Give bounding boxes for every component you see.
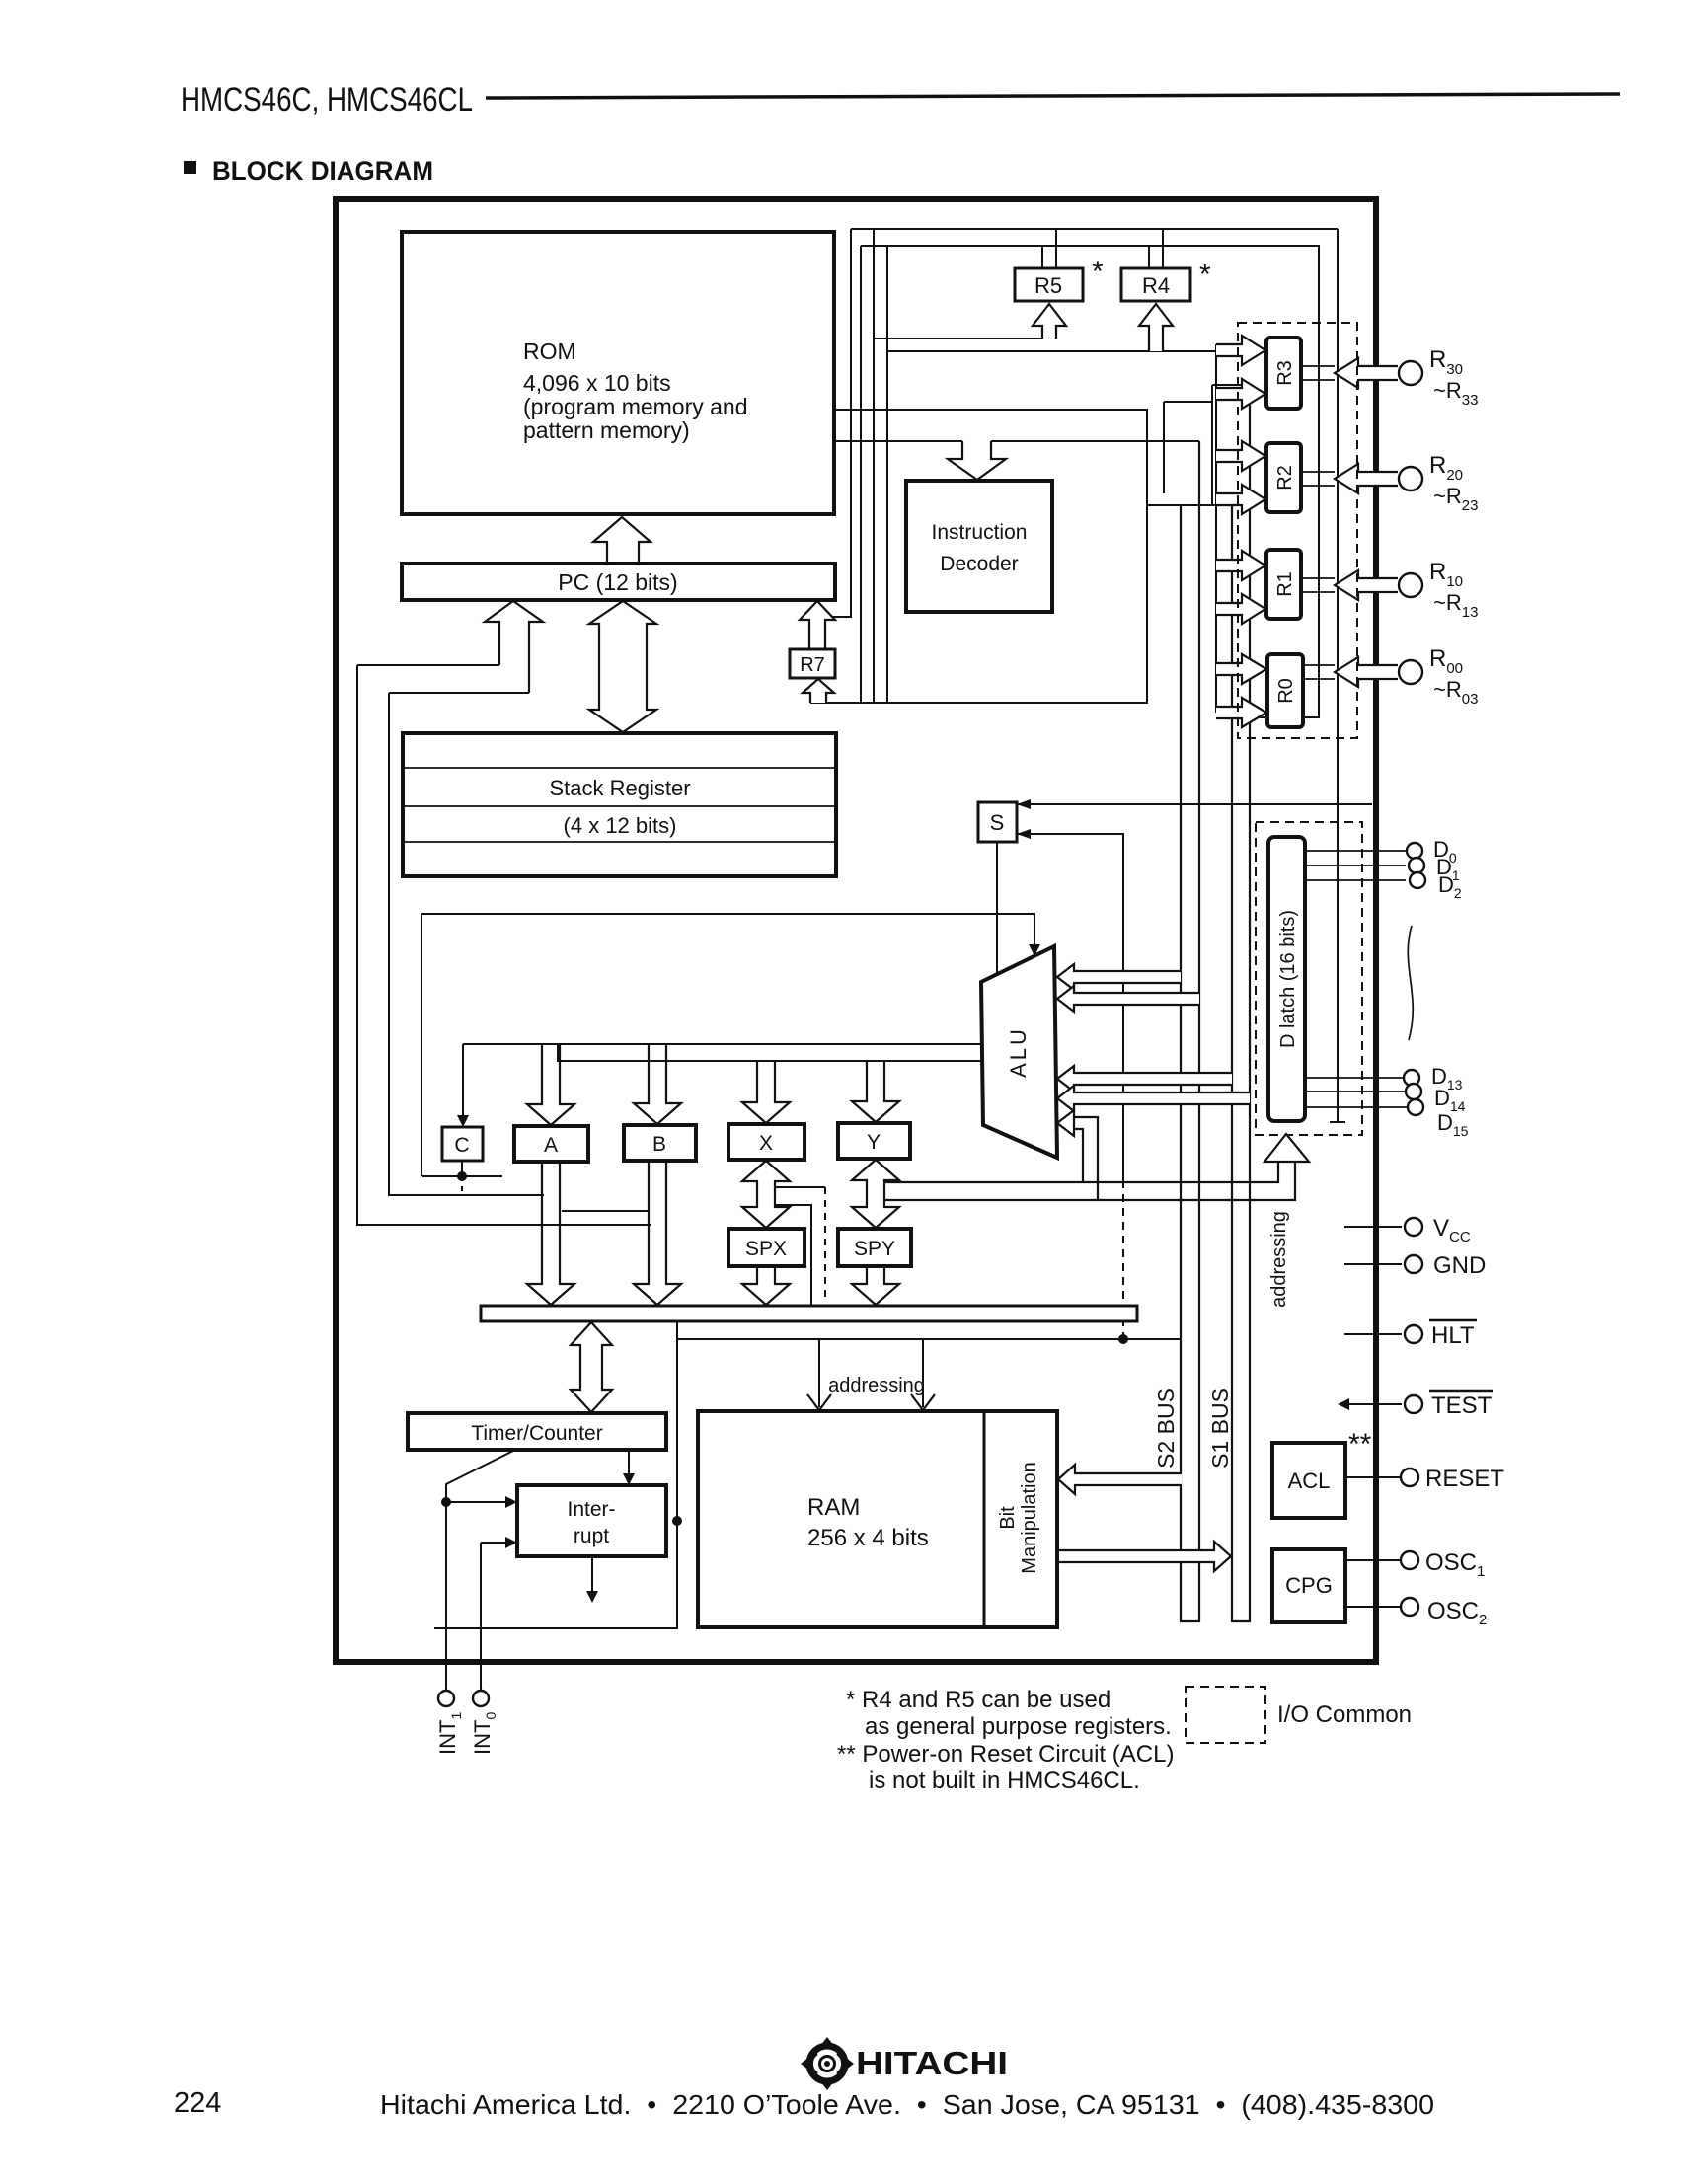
svg-text:GND: GND	[1433, 1252, 1486, 1279]
svg-text:(4 x 12 bits): (4 x 12 bits)	[564, 813, 677, 838]
svg-text:D latch (16 bits): D latch (16 bits)	[1277, 910, 1299, 1048]
svg-text:Stack Register: Stack Register	[549, 776, 690, 800]
svg-text:Hitachi America Ltd. • 2210: Hitachi America Ltd. • 2210 O’Toole Ave.…	[380, 2089, 1434, 2120]
svg-text:Instruction: Instruction	[932, 521, 1028, 544]
svg-text:ROM: ROM	[523, 339, 576, 364]
svg-text:R1: R1	[1274, 571, 1296, 597]
svg-text:R2: R2	[1274, 465, 1296, 490]
svg-text:SPY: SPY	[854, 1238, 895, 1260]
svg-text:*: *	[1092, 256, 1104, 288]
svg-text:** Power-on Reset Circuit (ACL: ** Power-on Reset Circuit (ACL)	[837, 1741, 1174, 1768]
svg-text:Bit: Bit	[997, 1506, 1019, 1530]
svg-text:rupt: rupt	[574, 1525, 609, 1547]
svg-text:addressing: addressing	[1268, 1211, 1290, 1308]
svg-text:addressing: addressing	[828, 1375, 925, 1396]
svg-text:TEST: TEST	[1431, 1393, 1493, 1419]
svg-text:PC (12 bits): PC (12 bits)	[558, 569, 677, 595]
svg-text:R0: R0	[1275, 678, 1297, 704]
svg-text:is not built in HMCS46CL.: is not built in HMCS46CL.	[869, 1768, 1140, 1794]
svg-text:as general purpose registers.: as general purpose registers.	[865, 1713, 1172, 1740]
svg-text:4,096 x 10 bits: 4,096 x 10 bits	[523, 370, 671, 396]
svg-text:C: C	[454, 1134, 469, 1157]
svg-text:HMCS46C, HMCS46CL: HMCS46C, HMCS46CL	[181, 81, 473, 118]
svg-text:S2 BUS: S2 BUS	[1153, 1388, 1179, 1469]
svg-text:SPX: SPX	[745, 1238, 787, 1260]
svg-text:S: S	[990, 810, 1005, 835]
svg-text:ACL: ACL	[1288, 1469, 1331, 1493]
svg-text:256 x 4 bits: 256 x 4 bits	[807, 1525, 929, 1551]
svg-text:A: A	[544, 1134, 558, 1157]
svg-text:BLOCK DIAGRAM: BLOCK DIAGRAM	[212, 156, 433, 186]
svg-text:S1 BUS: S1 BUS	[1207, 1388, 1233, 1469]
svg-text:(program memory and: (program memory and	[523, 394, 748, 419]
svg-text:OSC2: OSC2	[1427, 1598, 1487, 1628]
svg-text:X: X	[759, 1132, 773, 1155]
svg-text:Y: Y	[867, 1131, 881, 1154]
svg-text:R7: R7	[800, 654, 825, 676]
svg-text:Inter-: Inter-	[567, 1498, 615, 1521]
svg-text:R5: R5	[1034, 273, 1062, 298]
svg-text:RESET: RESET	[1425, 1466, 1504, 1492]
svg-text:I/O Common: I/O Common	[1277, 1701, 1412, 1728]
svg-text:Manipulation: Manipulation	[1019, 1462, 1040, 1573]
svg-text:ALU: ALU	[1006, 1026, 1031, 1078]
svg-text:R4: R4	[1142, 273, 1170, 298]
svg-text:**: **	[1348, 1428, 1372, 1461]
svg-text:Timer/Counter: Timer/Counter	[471, 1422, 602, 1445]
svg-text:* R4 and R5 can be used: * R4 and R5 can be used	[846, 1687, 1111, 1713]
svg-text:OSC1: OSC1	[1425, 1549, 1485, 1580]
svg-text:RAM: RAM	[807, 1494, 860, 1521]
svg-text:R3: R3	[1274, 360, 1296, 386]
svg-text:Decoder: Decoder	[940, 553, 1018, 575]
svg-text:pattern memory): pattern memory)	[523, 417, 690, 443]
svg-text:HITACHI: HITACHI	[856, 2045, 1008, 2081]
svg-text:B: B	[652, 1133, 666, 1156]
svg-text:*: *	[1199, 259, 1211, 291]
svg-text:224: 224	[174, 2087, 221, 2119]
svg-text:CPG: CPG	[1285, 1573, 1333, 1598]
svg-text:HLT: HLT	[1431, 1322, 1475, 1349]
